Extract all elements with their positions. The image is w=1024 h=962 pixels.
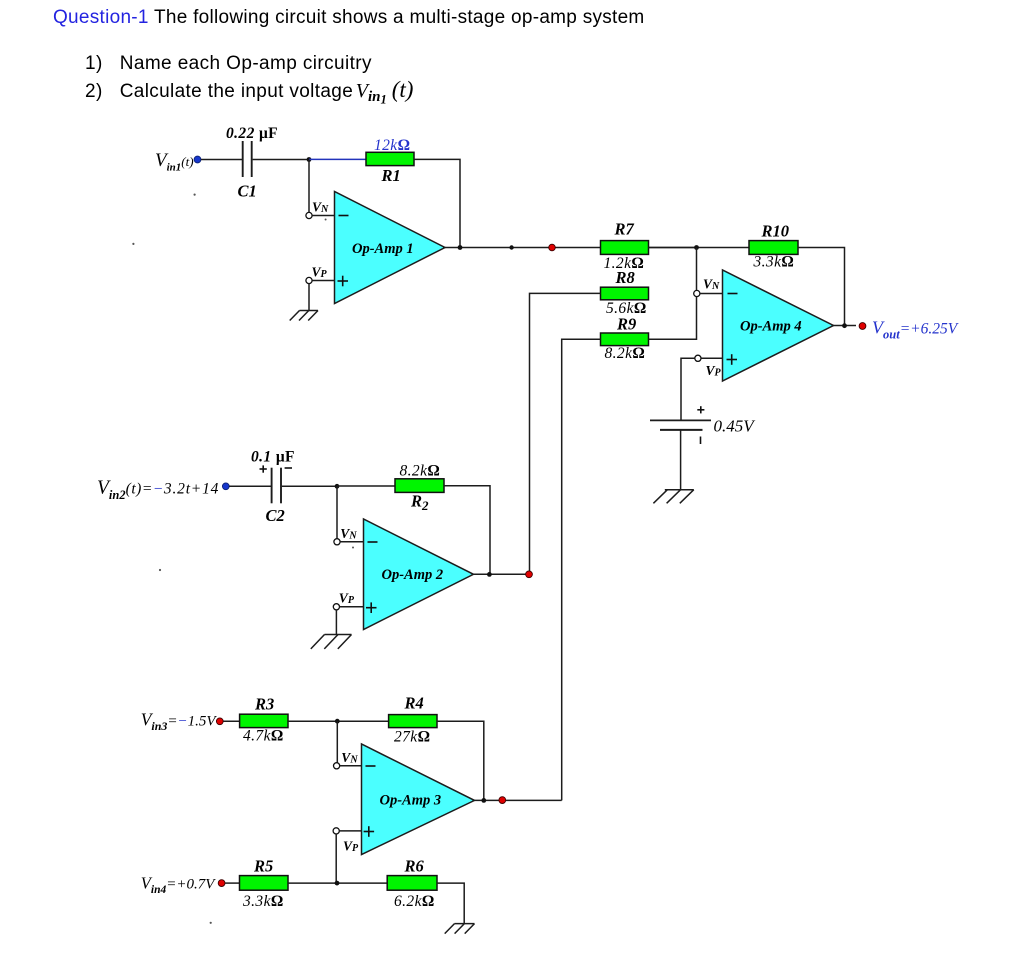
- svg-text:4.7kΩ: 4.7kΩ: [243, 728, 284, 745]
- stray mark: [132, 243, 134, 245]
- svg-text:R4: R4: [404, 694, 424, 713]
- wire junction down to VN pin: [336, 721, 338, 763]
- wire Vin3 to R3: [223, 720, 239, 722]
- svg-text:Op-Amp 1: Op-Amp 1: [352, 241, 414, 257]
- resistor R4: [389, 694, 437, 746]
- op-amp U3: [362, 744, 475, 855]
- node at R1 feedback: [458, 245, 463, 250]
- svg-text:C2: C2: [266, 506, 285, 525]
- input terminal Vin3: [141, 710, 224, 734]
- list item 2: [85, 77, 413, 103]
- resistor R1: [366, 137, 414, 185]
- ground (battery): [653, 490, 693, 504]
- wire R8 to op-amp 2 output: [530, 293, 601, 574]
- svg-text:Vin1(t): Vin1(t): [155, 150, 194, 174]
- node at R4 feedback: [481, 798, 486, 803]
- stray mark: [352, 547, 354, 549]
- svg-text:VN: VN: [341, 750, 358, 766]
- svg-text:Op-Amp 4: Op-Amp 4: [740, 319, 802, 335]
- svg-text:R10: R10: [761, 222, 790, 241]
- pin VN of op-amp 1: [306, 200, 335, 219]
- svg-text:VN: VN: [703, 277, 720, 293]
- svg-text:R5: R5: [253, 857, 273, 876]
- svg-text:Op-Amp 2: Op-Amp 2: [382, 567, 444, 583]
- node at op-amp 4 output: [842, 323, 847, 328]
- node (red) op-amp 2 output: [526, 571, 533, 578]
- node on output bus: [509, 245, 513, 249]
- op-amp U2: [364, 519, 474, 630]
- svg-text:3.3kΩ: 3.3kΩ: [242, 893, 284, 910]
- wire VP to ground: [308, 284, 310, 311]
- svg-text:Op-Amp 3: Op-Amp 3: [380, 793, 442, 809]
- input terminal Vin1(t): [155, 150, 201, 174]
- wire R9 to op-amp 3 output: [562, 339, 601, 800]
- svg-text:0.45V: 0.45V: [714, 417, 757, 436]
- svg-text:Vin4=+0.7V: Vin4=+0.7V: [141, 874, 216, 897]
- node at R2 feedback: [487, 572, 492, 577]
- svg-text:VP: VP: [343, 839, 359, 855]
- wire R2 to output node: [444, 486, 490, 575]
- op-amp U1: [335, 192, 446, 304]
- pin VN of op-amp 3: [334, 750, 362, 769]
- svg-text:VN: VN: [312, 200, 329, 216]
- svg-text:3.3kΩ: 3.3kΩ: [753, 254, 795, 271]
- svg-text:R2: R2: [410, 492, 429, 514]
- stray mark: [210, 922, 212, 924]
- wire Vin1 to C1: [201, 159, 242, 161]
- ground (op-amp 1 VP): [290, 311, 318, 321]
- svg-text:VP: VP: [339, 591, 355, 607]
- resistor R3: [240, 695, 288, 745]
- wire C2 to node: [282, 485, 337, 487]
- battery 0.45V: [650, 406, 756, 444]
- pin VP of op-amp 2: [333, 591, 363, 610]
- wire Vin4 to R5: [225, 882, 240, 884]
- label Vout=+6.25V: [872, 318, 959, 342]
- wire op-amp 4 output: [832, 325, 857, 327]
- wire R1 to output node: [414, 159, 460, 247]
- svg-text:R8: R8: [615, 268, 635, 287]
- pin VP of op-amp 1: [306, 265, 335, 284]
- svg-text:R6: R6: [404, 857, 425, 876]
- svg-text:C1: C1: [238, 182, 257, 201]
- input terminal Vin2(t): [97, 478, 229, 503]
- resistor R2: [395, 463, 444, 514]
- wire node down to VN pin: [336, 486, 338, 538]
- svg-text:Vin3=−1.5V: Vin3=−1.5V: [141, 710, 218, 734]
- node at C2/R2/VN junction: [335, 484, 340, 489]
- resistor R8: [601, 268, 649, 317]
- capacitor C2: [251, 449, 295, 526]
- svg-text:R1: R1: [381, 166, 401, 185]
- ground (op-amp 2 VP): [311, 635, 352, 649]
- stray mark: [325, 219, 327, 221]
- svg-text:0.1 μF: 0.1 μF: [251, 449, 295, 466]
- node (red) op-amp 3 output: [499, 797, 506, 804]
- input terminal Vin4: [141, 874, 225, 897]
- resistor R7: [601, 220, 649, 273]
- wire R6 to ground: [437, 883, 464, 923]
- wire R7 to R10: [649, 247, 750, 249]
- title: [53, 7, 645, 29]
- list item 1: [85, 53, 372, 75]
- svg-text:6.2kΩ: 6.2kΩ: [394, 893, 435, 910]
- wire (blue) node to R1: [309, 158, 366, 160]
- svg-text:VP: VP: [706, 363, 722, 379]
- wire op-amp 2 output: [472, 573, 530, 575]
- svg-text:VP: VP: [312, 265, 328, 281]
- svg-text:27kΩ: 27kΩ: [394, 729, 430, 746]
- wire battery to ground: [680, 430, 682, 490]
- wire R4 to output node: [437, 721, 484, 800]
- op-amp U4: [723, 270, 834, 381]
- wire R3 to R4: [288, 720, 389, 722]
- svg-text:VN: VN: [340, 526, 357, 542]
- ground (R6): [445, 924, 475, 934]
- svg-text:12kΩ: 12kΩ: [374, 137, 410, 154]
- svg-text:Vout=+6.25V: Vout=+6.25V: [872, 318, 959, 342]
- svg-text:R7: R7: [614, 220, 635, 239]
- stray mark: [159, 569, 161, 571]
- resistor R9: [601, 315, 649, 363]
- node (red) on output bus: [549, 244, 556, 251]
- wire R10 to output node: [798, 248, 845, 326]
- wire op-amp 1 output bus: [443, 247, 697, 249]
- svg-text:R9: R9: [616, 315, 636, 334]
- svg-text:8.2kΩ: 8.2kΩ: [400, 463, 441, 480]
- wire C1 to node: [253, 159, 309, 161]
- resistor R10: [749, 222, 798, 271]
- resistor R6: [387, 857, 437, 911]
- wire junction down to VN pin: [696, 248, 698, 291]
- wire VP to ground: [335, 610, 337, 634]
- svg-text:0.22 μF: 0.22 μF: [226, 125, 278, 142]
- wire VP down to R5/R6 node: [335, 834, 337, 883]
- wire VP to battery: [681, 358, 695, 420]
- svg-text:R3: R3: [254, 695, 274, 714]
- node at C1/R1/VN junction: [307, 157, 312, 162]
- wire Vin2 to C2: [229, 485, 271, 487]
- pin VN of op-amp 2: [334, 526, 364, 545]
- pin VP of op-amp 4: [695, 355, 723, 378]
- stray mark: [194, 194, 196, 196]
- svg-text:Vin2(t)=−3.2t+14: Vin2(t)=−3.2t+14: [97, 478, 219, 503]
- node at R7/R10/VN junction: [694, 245, 699, 250]
- wire R9 to VN node: [649, 297, 697, 340]
- resistor R5: [240, 857, 289, 911]
- wire node to R2: [337, 485, 395, 487]
- wire R5 to R6: [288, 882, 387, 884]
- svg-text:8.2kΩ: 8.2kΩ: [605, 345, 646, 362]
- wire node down to VN pin: [308, 160, 310, 213]
- node at R3/R4/VN junction: [335, 719, 340, 724]
- pin VP of op-amp 3: [333, 828, 361, 854]
- node at R5/R6/VP junction: [335, 881, 340, 886]
- wire op-amp 3 output: [473, 799, 562, 801]
- output terminal (red): [859, 323, 866, 330]
- capacitor C1: [226, 125, 278, 201]
- pin VN of op-amp 4: [694, 277, 723, 297]
